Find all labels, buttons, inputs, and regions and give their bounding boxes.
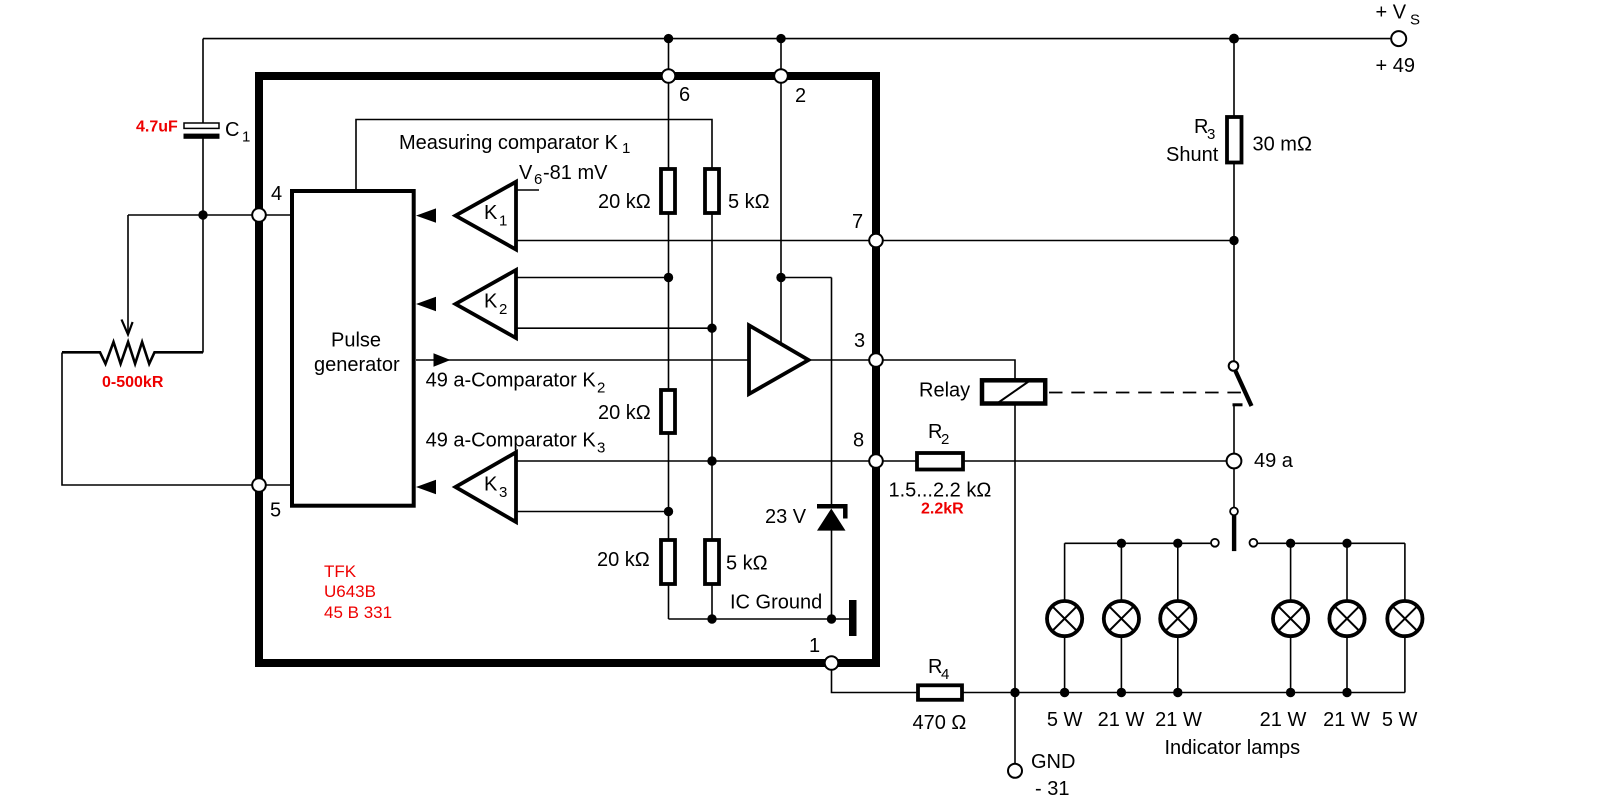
- svg-text:5 kΩ: 5 kΩ: [728, 191, 770, 213]
- svg-text:49 a: 49 a: [1254, 450, 1294, 472]
- wire lamp rail left: [1065, 542, 1211, 544]
- wire pot right lead up to node: [202, 215, 204, 353]
- svg-text:5 kΩ: 5 kΩ: [726, 553, 768, 575]
- relay contact lever: [1236, 371, 1252, 406]
- wire left drop from rail to C1: [202, 39, 204, 123]
- svg-text:+ 49: + 49: [1376, 55, 1415, 77]
- relay contact pivot: [1229, 361, 1239, 371]
- svg-text:2: 2: [795, 85, 806, 107]
- svg-text:20 kΩ: 20 kΩ: [597, 549, 650, 571]
- indicator lamp L5 21W: [1329, 601, 1364, 636]
- wire pin2 column down to driver top: [780, 39, 782, 344]
- resistor 5k #2: [705, 540, 719, 584]
- IC ground symbol: [849, 600, 857, 636]
- svg-text:4.7uF: 4.7uF: [136, 119, 178, 136]
- wire lamp 3 column: [1177, 543, 1179, 692]
- svg-text:1: 1: [242, 129, 250, 146]
- svg-text:49 a-Comparator K: 49 a-Comparator K: [426, 370, 597, 392]
- svg-text:7: 7: [852, 211, 863, 233]
- lamp switch right contact: [1250, 539, 1258, 547]
- junction pin7 line / shunt column: [1229, 236, 1238, 245]
- junction top rail / shunt column: [1229, 34, 1239, 44]
- svg-text:Pulse: Pulse: [331, 330, 381, 352]
- svg-text:-81 mV: -81 mV: [543, 162, 608, 184]
- svg-text:20 kΩ: 20 kΩ: [598, 402, 651, 424]
- wiper arrowhead: [122, 320, 133, 335]
- resistor R2 body: [917, 453, 963, 470]
- junction lamp rail / lamp5: [1342, 539, 1351, 548]
- svg-text:2.2kR: 2.2kR: [921, 501, 964, 518]
- relay coil box: [982, 380, 1045, 403]
- pin 2 terminal: [774, 69, 788, 83]
- wire relay coil down to lamp return rail: [1014, 404, 1016, 693]
- junction return rail / lamp2: [1117, 688, 1126, 697]
- wire pin6 column into 20k: [668, 39, 670, 168]
- wire lamp 2 column: [1120, 543, 1122, 692]
- svg-text:30 mΩ: 30 mΩ: [1253, 134, 1312, 156]
- zener diode 23V cathode bar: [817, 506, 845, 518]
- svg-text:C: C: [225, 119, 239, 141]
- wire GND terminal drop: [1014, 693, 1016, 764]
- svg-text:1: 1: [809, 635, 820, 657]
- output driver triangle: [749, 325, 809, 394]
- relay fixed contact tick: [1233, 403, 1243, 406]
- wire pin4 horizontal (pot wiper / C1 / pin 4 / pulse gen): [128, 214, 290, 216]
- svg-text:+ V: + V: [1376, 2, 1407, 24]
- svg-text:Measuring comparator K: Measuring comparator K: [399, 132, 619, 154]
- wire K2 top input: [516, 277, 669, 279]
- wire lamp 5 column: [1346, 543, 1348, 692]
- wire 49a terminal to lamp switch pivot: [1233, 469, 1235, 507]
- junction C1 / pot / pin4: [198, 210, 207, 219]
- svg-text:- 31: - 31: [1035, 778, 1069, 798]
- pulse generator block: [292, 191, 414, 506]
- svg-text:3: 3: [597, 440, 605, 457]
- svg-text:21 W: 21 W: [1260, 709, 1307, 731]
- svg-text:23 V: 23 V: [765, 506, 807, 528]
- wire IC ground horizontal: [669, 618, 850, 620]
- 49a terminal: [1227, 454, 1242, 469]
- wire K1 output to pin 7 and shunt column: [516, 240, 1234, 242]
- junction top rail / pin2 column: [776, 34, 785, 43]
- GND -31 terminal: [1008, 764, 1022, 778]
- svg-text:K: K: [484, 291, 498, 313]
- svg-text:0-500kR: 0-500kR: [102, 374, 164, 391]
- svg-text:Indicator lamps: Indicator lamps: [1165, 737, 1301, 759]
- comparator K1 triangle: [456, 182, 517, 250]
- svg-text:2: 2: [941, 431, 949, 448]
- svg-text:20 kΩ: 20 kΩ: [598, 191, 651, 213]
- junction IC ground / zener column: [827, 614, 836, 623]
- wire pulse generator output to driver input: [416, 359, 749, 361]
- wire 20k #1 to 20k #2 (through K2 node): [668, 214, 670, 389]
- arrow K1 to pulse generator: [416, 208, 436, 222]
- junction pin2 column / zener branch: [776, 273, 785, 282]
- indicator lamp L1 5W: [1047, 601, 1082, 636]
- svg-text:1: 1: [499, 213, 507, 230]
- wire 5k #1 down to 5k #2 (through nodes): [711, 214, 713, 539]
- pin 8 terminal: [869, 454, 883, 468]
- resistor 20k #3: [661, 540, 675, 584]
- IC package outline U643B: [259, 76, 876, 663]
- junction top rail / pin6 column: [664, 34, 673, 43]
- pin 6 terminal: [662, 69, 676, 83]
- wire branch from pin2 column to zener column: [781, 277, 832, 279]
- junction return rail / lamp3: [1173, 688, 1182, 697]
- svg-text:5 W: 5 W: [1047, 709, 1083, 731]
- wire 20k #2 to 20k #3 (through K3 node): [668, 432, 670, 539]
- svg-text:IC Ground: IC Ground: [730, 592, 822, 614]
- wire driver output to pin 3 and relay: [808, 360, 1015, 380]
- arrow pulse generator output: [434, 353, 451, 366]
- junction return rail / lamp5: [1342, 688, 1351, 697]
- svg-text:Shunt: Shunt: [1166, 144, 1219, 166]
- junction lamp rail / lamp2: [1117, 539, 1126, 548]
- relay coil diagonal: [997, 381, 1030, 404]
- indicator lamp L2 21W: [1104, 601, 1139, 636]
- wire lamp 6 column: [1404, 543, 1406, 692]
- indicator lamp L4 21W: [1273, 601, 1308, 636]
- svg-text:49 a-Comparator K: 49 a-Comparator K: [426, 430, 597, 452]
- svg-text:2: 2: [597, 380, 605, 397]
- wire top supply rail: [203, 38, 1390, 40]
- wire pin1 down and across to R4: [832, 663, 918, 693]
- potentiometer 0-500k zigzag: [62, 342, 203, 364]
- svg-text:S: S: [1410, 12, 1420, 29]
- svg-text:5 W: 5 W: [1382, 709, 1418, 731]
- relay actuation dashed link: [1049, 392, 1241, 394]
- resistor 20k #2: [661, 390, 675, 433]
- capacitor C1 top plate: [184, 123, 219, 128]
- svg-text:5: 5: [270, 500, 281, 522]
- capacitor C1 bottom plate: [184, 134, 220, 139]
- svg-text:Relay: Relay: [919, 380, 970, 402]
- svg-text:U643B: U643B: [324, 582, 376, 601]
- svg-text:8: 8: [853, 430, 864, 452]
- wire pot left lead down and across to pin 5: [62, 353, 292, 486]
- junction pin8 line / 5k column: [707, 456, 716, 465]
- lamp switch pivot: [1230, 508, 1238, 516]
- comparator K2 triangle: [456, 270, 517, 338]
- junction return rail / relay coil: [1010, 688, 1019, 697]
- svg-text:4: 4: [271, 183, 282, 205]
- junction K2 top / 20k column: [664, 273, 673, 282]
- svg-text:TFK: TFK: [324, 562, 357, 581]
- junction return rail / lamp4: [1286, 688, 1295, 697]
- pin 4 terminal: [252, 208, 266, 222]
- wire relay contact to 49a terminal: [1233, 406, 1235, 461]
- pin 5 terminal: [252, 478, 266, 492]
- svg-text:GND: GND: [1031, 751, 1075, 773]
- wire potentiometer wiper vertical: [127, 215, 129, 333]
- wire R3 to pin7 node: [1233, 161, 1235, 241]
- resistor 20k #1: [661, 169, 675, 213]
- wire K1 reference stub under V6 label: [517, 189, 539, 191]
- junction K3 bottom / 20k column: [664, 507, 673, 516]
- arrow K2 to pulse generator: [416, 297, 436, 311]
- wire lamp return rail: [963, 692, 1405, 694]
- wire 5k #2 to IC ground line: [711, 582, 713, 619]
- svg-text:K: K: [484, 474, 498, 496]
- wire pin8 line right of R2 to 49a: [963, 460, 1234, 462]
- svg-text:1.5...2.2 kΩ: 1.5...2.2 kΩ: [889, 480, 992, 502]
- wire 20k #3 to IC ground line: [668, 582, 670, 619]
- wire lamp 4 column: [1290, 543, 1292, 692]
- svg-text:470 Ω: 470 Ω: [913, 712, 967, 734]
- +Vs terminal: [1391, 31, 1406, 46]
- junction lamp rail / lamp3: [1173, 539, 1182, 548]
- svg-text:45 B 331: 45 B 331: [324, 603, 392, 622]
- resistor R3 shunt body: [1227, 117, 1242, 163]
- svg-text:21 W: 21 W: [1323, 709, 1370, 731]
- svg-text:K: K: [484, 202, 498, 224]
- svg-text:6: 6: [534, 171, 542, 188]
- resistor R4 body: [918, 685, 962, 700]
- wire lamp 1 column: [1064, 543, 1066, 692]
- svg-text:3: 3: [1207, 126, 1215, 143]
- indicator lamp L6 5W: [1387, 601, 1422, 636]
- svg-text:2: 2: [499, 301, 507, 318]
- wire pulse gen top feed to 5k #1: [356, 120, 712, 192]
- indicator lamp L3 21W: [1160, 601, 1195, 636]
- svg-text:3: 3: [499, 484, 507, 501]
- pin 1 terminal: [825, 656, 839, 670]
- wire K2 bottom input: [516, 327, 712, 329]
- junction K2 bottom / 5k column: [707, 324, 716, 333]
- svg-text:4: 4: [941, 666, 949, 683]
- arrow K3 to pulse generator: [416, 480, 436, 494]
- junction IC ground / 5k column: [707, 614, 716, 623]
- junction return rail / lamp1: [1060, 688, 1069, 697]
- svg-text:generator: generator: [314, 354, 400, 376]
- svg-text:3: 3: [854, 330, 865, 352]
- wire +Vs rail to R3 shunt: [1233, 39, 1235, 118]
- comparator K3 triangle: [456, 452, 517, 522]
- pin 7 terminal: [869, 234, 883, 248]
- zener diode 23V body: [817, 509, 846, 531]
- wire zener column down: [831, 278, 833, 507]
- svg-text:21 W: 21 W: [1155, 709, 1202, 731]
- wire zener to IC ground line: [831, 529, 833, 619]
- lamp switch lever (open): [1232, 515, 1236, 551]
- wire lamp rail right: [1258, 542, 1405, 544]
- wire C1 bottom to node at pin4 line: [202, 138, 204, 215]
- pin 3 terminal: [869, 353, 883, 367]
- lamp switch left contact: [1211, 539, 1219, 547]
- wire pin8 line left of R2 (K3 top input): [516, 460, 917, 462]
- junction lamp rail / lamp4: [1286, 539, 1295, 548]
- svg-text:6: 6: [679, 84, 690, 106]
- resistor 5k #1: [705, 169, 719, 213]
- wire pin7 node to relay contact pivot: [1233, 241, 1235, 362]
- svg-text:21 W: 21 W: [1098, 709, 1145, 731]
- svg-text:V: V: [519, 162, 533, 184]
- svg-text:1: 1: [622, 140, 630, 157]
- wire K3 bottom input: [516, 511, 669, 513]
